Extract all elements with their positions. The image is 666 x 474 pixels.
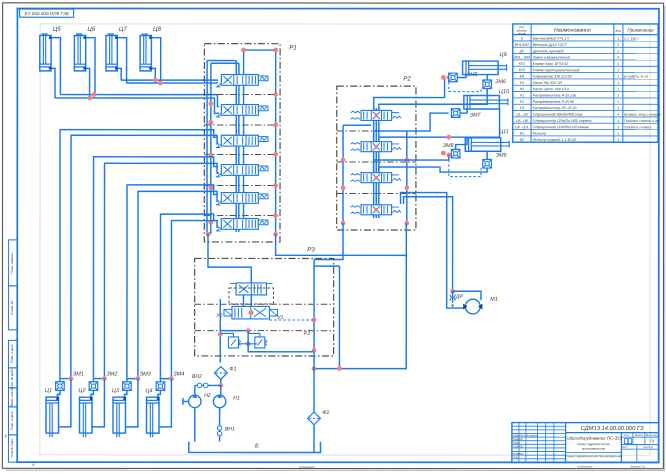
wires P2 valve3 to Ц11 — [374, 155, 452, 172]
P1 directional valve 1 — [216, 75, 268, 87]
suction line Н1 with valve ВН1 — [217, 408, 221, 442]
bus pair Ц5/Ц6 to P1 valve 2 — [55, 98, 219, 113]
svg-text:Р2: Р2 — [304, 331, 310, 337]
junction dots near ЗМ5 — [441, 75, 446, 80]
svg-text:ГЗ: ГЗ — [649, 439, 654, 444]
P2 directional valve 1 — [351, 110, 402, 120]
svg-text:ЗМ3: ЗМ3 — [140, 371, 152, 377]
junction dot ДР — [450, 289, 455, 294]
svg-text:принципиальная: принципиальная — [582, 447, 606, 451]
svg-text:Взам. инв.№: Взам. инв.№ — [10, 387, 14, 406]
hydraulic lock ЗМ4 — [156, 379, 171, 398]
svg-text:Фильтр: Фильтр — [533, 131, 546, 135]
svg-text:Подп. и дата: Подп. и дата — [10, 344, 14, 363]
svg-text:КП1: КП1 — [519, 62, 525, 66]
junction dots on drain — [337, 366, 342, 371]
svg-text:Ц10: Ц10 — [499, 89, 510, 95]
P1 row dividers — [204, 93, 280, 95]
svg-text:Формат A1: Формат A1 — [630, 465, 645, 469]
P1 directional valve 3 — [216, 135, 268, 147]
svg-text:чение: чение — [518, 32, 527, 36]
cylinder Ц2 — [79, 397, 92, 437]
svg-text:ЗМ4: ЗМ4 — [173, 372, 184, 378]
svg-text:Фильтр сливной 1.1.32-25: Фильтр сливной 1.1.32-25 — [533, 138, 576, 142]
svg-text:Б: Б — [255, 443, 259, 449]
svg-text:Клапан предохранительный: Клапан предохранительный — [533, 68, 580, 72]
hydraulic lock ЗМ2 — [89, 379, 104, 398]
svg-text:Утв.: Утв. — [513, 455, 519, 459]
svg-text:ЗМ7: ЗМ7 — [470, 113, 482, 119]
P1 directional valve 2 — [216, 105, 268, 117]
valve block P3 outline — [195, 258, 334, 356]
svg-text:1: 1 — [617, 81, 619, 85]
cylinder Ц5 — [40, 34, 61, 98]
P1 directional valve 6 — [216, 219, 268, 231]
svg-text:1: 1 — [617, 100, 619, 104]
svg-text:М1: М1 — [490, 297, 498, 303]
svg-text:2: 2 — [616, 43, 619, 47]
P3 top valve (2-pos) — [230, 283, 273, 295]
svg-text:У1: У1 — [277, 315, 283, 321]
wires P2 valve1 to Ц9 — [374, 77, 445, 110]
svg-text:Ф1: Ф1 — [520, 131, 525, 135]
svg-text:Бак масляный V=6,3 л: Бак масляный V=6,3 л — [533, 37, 569, 41]
svg-text:Инв.№ подл.: Инв.№ подл. — [10, 438, 14, 457]
valve block P2 outline — [337, 86, 416, 230]
wire to Ц2 bottom — [92, 379, 104, 427]
P2 internal rails — [342, 125, 344, 223]
svg-text:Гидроцилиндр 80х55х400 опор: Гидроцилиндр 80х55х400 опор — [533, 112, 583, 116]
svg-text:ДР: ДР — [455, 294, 464, 300]
wire P1 to P3 inlet — [208, 234, 251, 283]
parts list table — [513, 24, 662, 142]
wire pair to cylinder Ц2 — [93, 157, 219, 379]
svg-text:Лит.: Лит. — [624, 433, 629, 437]
relief valve КП1 — [220, 333, 240, 348]
svg-text:Ц5...Ц8: Ц5...Ц8 — [516, 119, 528, 123]
svg-text:Ц1: Ц1 — [45, 388, 52, 394]
svg-text:Рукояти и ковша: Рукояти и ковша — [624, 125, 651, 129]
svg-text:Ф1: Ф1 — [229, 366, 236, 372]
svg-text:Гидромотор 310.112.00: Гидромотор 310.112.00 — [533, 75, 572, 79]
svg-text:×: × — [32, 462, 35, 468]
P2 right rail down to drain — [314, 223, 406, 369]
hydraulic lock ЗМ6 — [483, 75, 492, 89]
motor loop wire — [453, 291, 481, 300]
pilot line ЗМ5-ЗМ6 (dashed) — [449, 77, 481, 91]
svg-text:4: 4 — [617, 113, 619, 117]
svg-text:ВН2: ВН2 — [192, 374, 202, 380]
filter Ф1 — [214, 367, 227, 386]
svg-text:1: 1 — [617, 37, 619, 41]
relief valve КП2 — [248, 333, 267, 348]
wire to Ц3 bottom — [126, 379, 138, 427]
svg-text:Н1: Н1 — [233, 395, 240, 401]
svg-text:Ц7: Ц7 — [119, 26, 128, 33]
svg-text:Схема гидравлическая принципиа: Схема гидравлическая принципиальная — [565, 454, 622, 458]
svg-text:Н1: Н1 — [520, 81, 524, 85]
valve ВН2 — [195, 383, 221, 395]
svg-text:Клапан давл. БГ54-32: Клапан давл. БГ54-32 — [533, 62, 568, 66]
svg-text:Ф2: Ф2 — [520, 138, 525, 142]
junction dot У valve — [248, 310, 253, 315]
svg-text:ЗМ1: ЗМ1 — [73, 371, 84, 377]
junction dot ЗМ4 line — [169, 376, 174, 381]
cylinder Ц8 — [140, 34, 161, 83]
P1 top feed wires — [207, 60, 236, 62]
bus pair Ц7/Ц8 to P1 valve 1 — [121, 79, 218, 81]
svg-text:М1: М1 — [520, 75, 525, 79]
svg-text:Распределитель РС-25.20: Распределитель РС-25.20 — [533, 106, 577, 110]
svg-text:У2: У2 — [216, 313, 222, 319]
svg-text:Выдвиж. опор и отвала: Выдвиж. опор и отвала — [624, 113, 661, 117]
wire to Ц4 bottom — [159, 379, 171, 427]
wire pair to cylinder Ц3 — [127, 185, 219, 379]
wire pair to cylinder Ц1 — [60, 130, 219, 379]
svg-text:Н2: Н2 — [520, 87, 524, 91]
svg-text:1: 1 — [617, 94, 619, 98]
pilot line ЗМ8-ЗМ9 (dashed) — [449, 155, 481, 177]
svg-text:1: 1 — [617, 138, 619, 142]
svg-text:ДР: ДР — [519, 49, 525, 53]
cylinder Ц9 — [463, 61, 507, 75]
svg-text:ВН1: ВН1 — [225, 426, 235, 432]
P3 pilot dashed box — [229, 288, 274, 304]
svg-text:Р1: Р1 — [289, 44, 297, 51]
cylinder Ц3 — [113, 397, 126, 437]
cylinder Ц11 — [465, 138, 509, 152]
svg-text:Р1: Р1 — [520, 93, 524, 97]
filter Ф2 — [308, 369, 321, 453]
svg-text:СДМ13.14.00.00.000 ГЗ: СДМ13.14.00.00.000 ГЗ — [581, 425, 645, 432]
relief outlet wires — [238, 343, 256, 345]
feed lines P3 to P2 — [314, 223, 343, 259]
svg-text:Примечание: Примечание — [627, 28, 654, 33]
P2 junction dots — [341, 158, 346, 163]
svg-text:ЗМ2: ЗМ2 — [106, 371, 118, 377]
svg-text:х.ч. 130 л: х.ч. 130 л — [623, 37, 639, 41]
left margin boxes — [9, 240, 18, 286]
svg-text:3: 3 — [617, 125, 619, 129]
junction dot ЗМ2 line — [102, 376, 107, 381]
svg-text:ЗМ6: ЗМ6 — [495, 79, 506, 85]
valve block P1 outline — [204, 44, 280, 242]
svg-text:схема гидравлическая: схема гидравлическая — [577, 442, 611, 446]
svg-text:ЕУ 000.000.ОПб ГЗБ: ЕУ 000.000.ОПб ГЗБ — [25, 11, 69, 16]
svg-text:Ц8: Ц8 — [153, 26, 162, 33]
svg-text:Н2: Н2 — [204, 393, 211, 399]
cylinder Ц10 — [464, 95, 508, 109]
svg-text:ЗМ9: ЗМ9 — [496, 153, 507, 159]
svg-text:Гидроцилиндр 110х56х1120 ковша: Гидроцилиндр 110х56х1120 ковша — [533, 125, 589, 129]
P2 directional valve 4 — [351, 205, 402, 215]
junction dot below Ф1 — [218, 383, 223, 388]
svg-text:Р2: Р2 — [520, 100, 524, 104]
hydraulic lock ЗМ3 — [123, 379, 138, 398]
svg-text:Справ. №: Справ. № — [10, 300, 14, 315]
wire to Ц1 bottom — [59, 379, 71, 427]
svg-text:1: 1 — [617, 49, 619, 53]
P3 left feed line — [219, 299, 221, 363]
svg-text:1: 1 — [617, 87, 619, 91]
junction Ц8 on buses — [153, 78, 158, 83]
P3 bottom collector — [248, 349, 314, 352]
svg-text:Лист: Лист — [622, 445, 629, 449]
suction line Н2 — [194, 408, 196, 442]
svg-text:Наименование: Наименование — [554, 28, 591, 34]
hydraulic lock ЗМ7 — [451, 109, 467, 118]
hydraulic lock ЗМ1 — [56, 379, 71, 398]
junction dot Ц10 line — [446, 135, 451, 140]
svg-text:1: 1 — [617, 68, 619, 72]
junction dots near ЗМ8 — [441, 151, 446, 156]
svg-text:Р2: Р2 — [403, 76, 411, 83]
svg-text:Перв. примен.: Перв. примен. — [10, 252, 14, 273]
wire pair to cylinder Ц4 — [160, 214, 219, 379]
svg-text:Ц4: Ц4 — [145, 388, 152, 394]
svg-text:Вентиль Ду16 ГОСТ: Вентиль Ду16 ГОСТ — [533, 43, 568, 47]
svg-text:Р3: Р3 — [307, 246, 315, 253]
P3 internal dividers — [195, 303, 334, 305]
svg-text:Замок гидравлический: Замок гидравлический — [533, 56, 570, 60]
cylinder Ц4 — [146, 397, 159, 437]
svg-text:Распределитель Р-25.96: Распределитель Р-25.96 — [533, 100, 574, 104]
junction dot ЗМ1 line — [69, 376, 74, 381]
svg-text:Ц1...Ц4: Ц1...Ц4 — [516, 112, 528, 116]
svg-text:Ц9: Ц9 — [499, 52, 506, 58]
cylinder Ц1 — [46, 397, 59, 437]
P2 directional valve 2 — [351, 142, 402, 152]
svg-text:Ц6: Ц6 — [87, 26, 96, 33]
svg-text:Ц5: Ц5 — [53, 26, 62, 33]
P1 return line to drain — [276, 234, 407, 255]
svg-text:4: 4 — [617, 119, 619, 123]
svg-text:КП2: КП2 — [519, 68, 525, 72]
P2 row dividers — [337, 130, 416, 132]
svg-text:1: 1 — [617, 132, 619, 136]
P1 directional valve 4 — [216, 165, 268, 177]
svg-text:Насос шест. НШ 10-3: Насос шест. НШ 10-3 — [533, 87, 569, 91]
junction dot relief outlet — [246, 341, 251, 346]
throttle ДР — [450, 291, 456, 307]
P3 right vertical line — [313, 259, 315, 368]
svg-text:Гидроцилиндр 125х63х1400 стрел: Гидроцилиндр 125х63х1400 стрелы — [533, 119, 593, 123]
top-left stamp — [20, 9, 74, 17]
junction Ц6 on buses — [92, 92, 97, 97]
P2 left rail down to drain — [338, 266, 340, 369]
svg-text:Ц2: Ц2 — [78, 388, 86, 394]
svg-text:1: 1 — [617, 106, 619, 110]
hydraulic lock ЗМ5 — [449, 73, 466, 82]
svg-text:Ц9...Ц11: Ц9...Ц11 — [515, 125, 528, 129]
P1 internal rails — [206, 61, 208, 235]
wires P2 valve4 to motor — [400, 193, 464, 309]
hydraulic motor М1 — [463, 299, 482, 314]
wires P2 valve2 to Ц10 — [374, 113, 449, 141]
svg-text:Кол: Кол — [615, 29, 621, 33]
svg-text:Т.контр.: Т.контр. — [513, 444, 523, 448]
svg-text:9: 9 — [617, 56, 619, 60]
svg-text:1: 1 — [617, 62, 619, 66]
svg-text:Копировал: Копировал — [299, 465, 314, 469]
svg-text:Подп. и дата: Подп. и дата — [10, 411, 14, 430]
P2 directional valve 3 — [351, 173, 402, 183]
svg-text:Листов: Листов — [643, 445, 653, 449]
title block — [512, 423, 659, 463]
svg-text:ЗМ1...ЗМ9: ЗМ1...ЗМ9 — [514, 56, 531, 60]
svg-text:Гидрооборудование ПС-353: Гидрооборудование ПС-353 — [565, 436, 623, 441]
svg-text:ВН1,ВН2: ВН1,ВН2 — [515, 43, 529, 47]
svg-text:Дроссель щелевой: Дроссель щелевой — [532, 49, 564, 53]
svg-text:Распределитель Р-25.136: Распределитель Р-25.136 — [533, 94, 576, 98]
svg-text:Ц11: Ц11 — [499, 129, 509, 135]
svg-text:Ф2: Ф2 — [322, 410, 329, 416]
hydraulic lock ЗМ8 — [451, 138, 467, 158]
pilot dashed line to right rail — [269, 319, 314, 321]
svg-text:Инв. № дубл.: Инв. № дубл. — [10, 368, 14, 388]
svg-text:Насос НШ 32У-3Л: Насос НШ 32У-3Л — [533, 81, 563, 85]
tank Б — [189, 442, 321, 453]
svg-text:Копировал: Копировал — [577, 465, 592, 469]
svg-text:Подъема стрелы и др.: Подъема стрелы и др. — [624, 119, 659, 123]
pump Н2 — [183, 395, 201, 408]
svg-text:ЗМ8: ЗМ8 — [443, 143, 454, 149]
hydraulic lock ЗМ9 — [483, 151, 492, 168]
svg-text:Р3: Р3 — [520, 106, 524, 110]
svg-text:Ц3: Ц3 — [112, 388, 120, 394]
pump Н1 — [213, 385, 225, 407]
svg-text:р=16МПа, Ф-14: р=16МПа, Ф-14 — [623, 75, 648, 79]
svg-text:Масса: Масса — [635, 433, 644, 437]
cylinder Ц6 — [74, 34, 95, 98]
P1 junction dots — [241, 48, 246, 53]
cylinder Ц7 — [106, 34, 127, 83]
svg-text:1: 1 — [617, 75, 619, 79]
P1 directional valve 5 — [216, 193, 268, 205]
junction dot ЗМ3 line — [136, 376, 141, 381]
svg-text:Масштаб: Масштаб — [646, 433, 658, 437]
P3 solenoid valve У1/У2 — [224, 295, 278, 319]
